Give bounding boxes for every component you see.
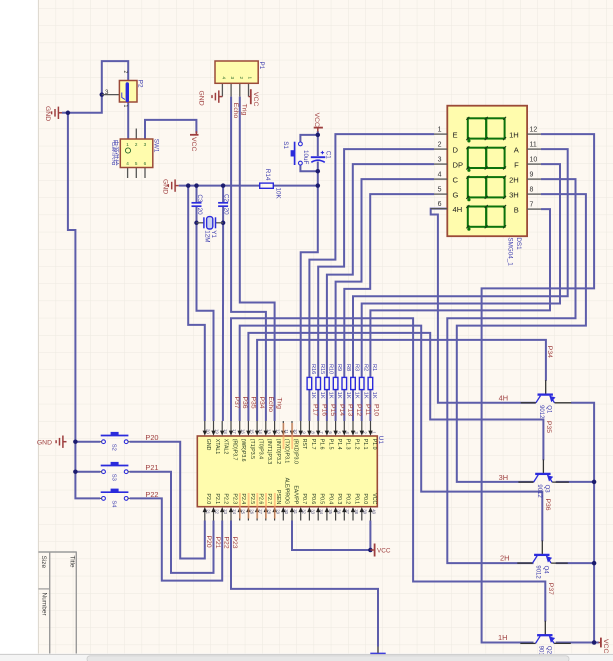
svg-text:21: 21 bbox=[206, 509, 211, 514]
pin 15 (T1)P3.5 (top) bbox=[247, 421, 249, 432]
svg-text:Number: Number bbox=[41, 593, 48, 617]
svg-text:Echo: Echo bbox=[232, 103, 239, 119]
pin 35 P0.4 (bottom) bbox=[326, 511, 328, 521]
svg-text:P20: P20 bbox=[205, 536, 212, 548]
wire: segment DP net bbox=[327, 164, 434, 377]
wire: Trig net P1 to MCU P3.2 bbox=[240, 97, 275, 421]
svg-text:3H: 3H bbox=[499, 473, 508, 482]
svg-text:1H: 1H bbox=[509, 130, 519, 139]
svg-text:P14: P14 bbox=[338, 404, 345, 416]
svg-text:10: 10 bbox=[293, 429, 298, 434]
svg-text:33: 33 bbox=[310, 509, 315, 514]
svg-text:P0.3: P0.3 bbox=[336, 494, 342, 505]
wire: P2 pin1 to SW1 pin1 bbox=[127, 102, 129, 139]
svg-text:P1.3: P1.3 bbox=[345, 439, 351, 450]
svg-text:P1.6: P1.6 bbox=[319, 439, 325, 450]
pin 3 DP (display left) bbox=[434, 163, 447, 165]
svg-text:15: 15 bbox=[249, 429, 254, 434]
svg-text:(RD)P3.7: (RD)P3.7 bbox=[231, 439, 237, 461]
pin 4 C (display left) bbox=[434, 178, 447, 180]
svg-text:1K: 1K bbox=[362, 392, 368, 399]
wire: stub to S2 bbox=[75, 441, 100, 443]
svg-text:P0.5: P0.5 bbox=[319, 494, 325, 505]
switch S1 (reset button) bbox=[294, 142, 296, 165]
svg-text:13: 13 bbox=[267, 429, 272, 434]
svg-text:VCC: VCC bbox=[371, 493, 377, 504]
svg-text:Echo: Echo bbox=[267, 397, 274, 413]
svg-text:12M: 12M bbox=[203, 230, 210, 242]
svg-text:P34: P34 bbox=[546, 346, 553, 358]
wire: segment F net bbox=[362, 164, 560, 377]
svg-text:4: 4 bbox=[438, 171, 442, 178]
wire: RST net to MCU pin 9 bbox=[301, 186, 318, 421]
resistor R3 1K bbox=[351, 377, 356, 389]
pin 36 P0.3 (bottom) bbox=[335, 511, 337, 521]
svg-text:Trig: Trig bbox=[276, 398, 283, 410]
svg-text:P20: P20 bbox=[145, 433, 158, 442]
VCC symbol at EA/VPP bbox=[370, 549, 374, 551]
wire: EA/VPP and VCC pin net bbox=[292, 521, 370, 551]
svg-text:E: E bbox=[453, 130, 458, 139]
svg-text:5: 5 bbox=[135, 161, 138, 166]
capacitor C2 20pF bbox=[218, 202, 228, 204]
wire: transistor emitter VCC rail bbox=[571, 403, 599, 643]
wire: P21 net S3 to MCU P2.1 bbox=[130, 472, 214, 573]
VCC symbol left (SW1 supply) bbox=[190, 134, 199, 136]
connector P1 bbox=[215, 61, 258, 83]
resistor R10 1K bbox=[325, 377, 330, 389]
pin 3 P1.2 (top) bbox=[352, 421, 354, 432]
pin 28 P2.7 (bottom) bbox=[265, 511, 267, 521]
svg-text:P0.2: P0.2 bbox=[345, 494, 351, 505]
svg-text:18: 18 bbox=[223, 429, 228, 434]
svg-text:40: 40 bbox=[371, 509, 376, 514]
switch S3 bbox=[101, 465, 129, 467]
svg-text:1: 1 bbox=[126, 142, 129, 147]
svg-text:R14: R14 bbox=[264, 169, 271, 181]
svg-text:PSEN: PSEN bbox=[275, 490, 281, 504]
svg-text:36: 36 bbox=[337, 509, 342, 514]
pin 13 (INT1)P3.3 (top) bbox=[265, 421, 267, 432]
svg-text:P1: P1 bbox=[258, 62, 265, 70]
node: junction P2 pin3 bbox=[100, 92, 105, 97]
svg-text:4: 4 bbox=[126, 161, 129, 166]
svg-text:1K: 1K bbox=[310, 392, 316, 399]
pin 40 VCC (bottom) bbox=[370, 511, 372, 521]
svg-text:DS1: DS1 bbox=[515, 237, 522, 250]
svg-text:2: 2 bbox=[122, 71, 128, 74]
svg-text:C: C bbox=[453, 175, 459, 184]
svg-text:XTAL1: XTAL1 bbox=[214, 439, 220, 455]
svg-text:32: 32 bbox=[302, 509, 307, 514]
svg-text:3: 3 bbox=[105, 89, 109, 96]
node: crystal junctions bbox=[194, 221, 199, 226]
svg-text:P17: P17 bbox=[312, 404, 319, 416]
wire: segment B net bbox=[370, 209, 550, 377]
svg-text:P36: P36 bbox=[241, 397, 248, 409]
node: junction button rail S3 bbox=[73, 469, 78, 474]
IC U1 AT89C51 microcontroller bbox=[197, 436, 377, 507]
svg-text:(INT1)P3.3: (INT1)P3.3 bbox=[266, 439, 272, 464]
svg-text:20: 20 bbox=[223, 208, 230, 216]
svg-text:2: 2 bbox=[239, 77, 244, 80]
svg-text:P2.6: P2.6 bbox=[258, 494, 264, 505]
svg-text:GND: GND bbox=[162, 179, 169, 194]
svg-text:P35: P35 bbox=[250, 397, 257, 409]
svg-text:5: 5 bbox=[438, 186, 442, 193]
resistor R14 10K bbox=[260, 183, 274, 188]
svg-text:C3: C3 bbox=[196, 194, 203, 203]
svg-text:RST: RST bbox=[301, 439, 307, 450]
svg-text:2: 2 bbox=[135, 142, 138, 147]
pin 7 B (display right) bbox=[527, 208, 541, 210]
svg-text:P12: P12 bbox=[355, 404, 362, 416]
svg-text:P34: P34 bbox=[258, 397, 265, 409]
pin 9 RST (top) bbox=[300, 421, 302, 432]
svg-text:1K: 1K bbox=[371, 392, 377, 399]
pin 10 (RXD)P3.0 (top) bbox=[291, 421, 293, 432]
svg-text:R15: R15 bbox=[319, 364, 325, 374]
svg-text:26: 26 bbox=[249, 509, 254, 514]
pin 2 D (display left) bbox=[434, 148, 447, 150]
display DS1 SMG04_1 body bbox=[447, 106, 527, 237]
svg-text:P1.1: P1.1 bbox=[362, 439, 368, 450]
ground symbol at buttons bbox=[56, 436, 66, 448]
svg-text:GND: GND bbox=[44, 106, 51, 121]
svg-text:8: 8 bbox=[530, 186, 534, 193]
svg-text:28: 28 bbox=[267, 509, 272, 514]
svg-text:R16: R16 bbox=[310, 364, 316, 374]
svg-text:37: 37 bbox=[345, 509, 350, 514]
svg-text:22: 22 bbox=[214, 509, 219, 514]
svg-text:P1.4: P1.4 bbox=[336, 439, 342, 450]
svg-text:3: 3 bbox=[144, 142, 147, 147]
svg-text:9012: 9012 bbox=[538, 405, 544, 419]
wire: P37 net MCU to Q2 base bbox=[231, 318, 545, 621]
wire: 3H common net bbox=[457, 194, 586, 482]
pin 1 P1.0 (top) bbox=[370, 421, 372, 432]
svg-text:Q4: Q4 bbox=[542, 566, 548, 575]
svg-text:38: 38 bbox=[354, 509, 359, 514]
svg-text:P37: P37 bbox=[547, 583, 554, 595]
pin 24 P2.3 (bottom) bbox=[230, 511, 232, 521]
svg-text:(WR)P3.6: (WR)P3.6 bbox=[240, 439, 246, 462]
wire: left GND rail down to buttons bbox=[68, 113, 100, 499]
pin 23 P2.2 (bottom) bbox=[221, 511, 223, 521]
pin 32 P0.7 (bottom) bbox=[300, 511, 302, 521]
node: emitter rail junctions bbox=[592, 480, 597, 485]
switch S2 bbox=[101, 435, 129, 437]
pin 18 XTAL2 (top) bbox=[221, 421, 223, 432]
ground symbol under P1 pin 4 bbox=[212, 90, 222, 102]
transistor Q3 9012 bbox=[535, 473, 550, 475]
svg-text:F: F bbox=[514, 160, 519, 169]
crystal Y1 12M bbox=[197, 222, 204, 224]
svg-text:P35: P35 bbox=[545, 421, 552, 433]
capacitor C3 20pF bbox=[192, 202, 202, 204]
svg-text:B: B bbox=[514, 205, 519, 214]
svg-text:P2.0: P2.0 bbox=[205, 494, 211, 505]
svg-text:P36: P36 bbox=[544, 499, 551, 511]
svg-text:39: 39 bbox=[363, 509, 368, 514]
svg-text:R9: R9 bbox=[336, 364, 342, 371]
node: S1/C1 top and bottom junctions bbox=[316, 133, 321, 138]
pin 1 E (display left) bbox=[434, 133, 447, 135]
pin 22 P2.1 (bottom) bbox=[213, 511, 215, 521]
resistor R16 1K bbox=[307, 377, 312, 389]
svg-text:Q3: Q3 bbox=[543, 485, 549, 494]
pin 6 4H (display left) bbox=[431, 208, 448, 210]
svg-text:R1: R1 bbox=[371, 364, 377, 371]
svg-text:4: 4 bbox=[221, 77, 226, 80]
wire: S1 bottom branch bbox=[300, 165, 317, 171]
svg-text:P10: P10 bbox=[373, 404, 380, 416]
pin 9 2H (display right) bbox=[527, 178, 541, 180]
pin 11 A (display right) bbox=[527, 148, 541, 150]
svg-text:C1: C1 bbox=[325, 151, 332, 160]
svg-text:1K: 1K bbox=[336, 392, 342, 399]
svg-text:P13: P13 bbox=[347, 404, 354, 416]
svg-text:35: 35 bbox=[328, 509, 333, 514]
wire: P36 net MCU to Q4 base bbox=[240, 326, 543, 542]
pin 6 P1.5 (top) bbox=[326, 421, 328, 432]
display digit glyphs bbox=[468, 118, 505, 138]
pin 8 P1.7 (top) bbox=[308, 421, 310, 432]
connector P2 bbox=[119, 81, 137, 103]
svg-text:1: 1 bbox=[248, 77, 253, 80]
svg-text:P2.7: P2.7 bbox=[266, 494, 272, 505]
svg-text:P0.7: P0.7 bbox=[301, 494, 307, 505]
pin 5 G (display left) bbox=[434, 193, 447, 195]
svg-text:P0.0: P0.0 bbox=[362, 494, 368, 505]
svg-text:3: 3 bbox=[438, 156, 442, 163]
svg-text:VCC: VCC bbox=[252, 92, 259, 106]
svg-text:Title: Title bbox=[69, 556, 76, 568]
wire: segment G net bbox=[344, 194, 434, 377]
svg-text:XTAL2: XTAL2 bbox=[223, 439, 229, 455]
node: junction button rail S2 bbox=[73, 439, 78, 444]
svg-text:4H: 4H bbox=[453, 205, 463, 214]
svg-text:P1.2: P1.2 bbox=[353, 439, 359, 450]
svg-text:24: 24 bbox=[232, 509, 237, 514]
VCC symbol under P1 pin 1 bbox=[249, 96, 251, 98]
scrollbar band bbox=[0, 655, 613, 661]
svg-text:(T1)P3.5: (T1)P3.5 bbox=[249, 439, 255, 459]
pin 8 3H (display right) bbox=[527, 193, 541, 195]
transistor Q5 (bottom, cut off) bbox=[370, 653, 385, 655]
svg-text:9: 9 bbox=[530, 171, 534, 178]
orange highlight marks on pins 11,10 bbox=[283, 423, 285, 449]
svg-text:34: 34 bbox=[319, 509, 324, 514]
wire: SW1 bottom stubs bbox=[127, 168, 129, 179]
wire: C1 column to RST rail bbox=[317, 135, 319, 156]
svg-text:(TXD)P3.1: (TXD)P3.1 bbox=[284, 439, 290, 464]
svg-text:VCC: VCC bbox=[377, 547, 391, 554]
svg-text:C2: C2 bbox=[223, 194, 230, 203]
pin 37 P0.2 (bottom) bbox=[343, 511, 345, 521]
svg-text:VCC: VCC bbox=[313, 113, 320, 127]
wire: resistor bank lower wires to P1.x pins bbox=[308, 390, 310, 421]
svg-text:9012: 9012 bbox=[535, 565, 541, 579]
pin 2 P1.1 (top) bbox=[361, 421, 363, 432]
node: junction VCC/EA bbox=[368, 548, 373, 553]
svg-text:P15: P15 bbox=[329, 404, 336, 416]
title block bbox=[38, 552, 76, 654]
svg-text:R3: R3 bbox=[354, 364, 360, 371]
svg-text:23: 23 bbox=[223, 509, 228, 514]
svg-text:6: 6 bbox=[144, 161, 147, 166]
svg-text:P2: P2 bbox=[137, 80, 144, 88]
sheet border left edge bbox=[37, 0, 39, 654]
svg-text:P11: P11 bbox=[364, 404, 371, 416]
pin 5 P1.4 (top) bbox=[335, 421, 337, 432]
svg-text:14: 14 bbox=[258, 429, 263, 434]
wire: P34 net MCU to Q1 base bbox=[257, 340, 546, 421]
svg-text:G: G bbox=[453, 190, 459, 199]
svg-text:SMG04_1: SMG04_1 bbox=[507, 237, 514, 266]
switch SW1 (power select) bbox=[120, 139, 153, 168]
pin 21 P2.0 (bottom) bbox=[204, 511, 206, 521]
svg-text:(INT0)P3.2: (INT0)P3.2 bbox=[275, 439, 281, 464]
svg-text:17: 17 bbox=[232, 429, 237, 434]
wire: segment E net bbox=[309, 134, 434, 377]
pin 26 P2.5 (bottom) bbox=[247, 511, 249, 521]
wire: P35 net MCU to Q3 base bbox=[248, 333, 543, 460]
svg-text:P0.4: P0.4 bbox=[327, 494, 333, 505]
svg-text:10uF: 10uF bbox=[302, 150, 309, 165]
svg-text:P1.5: P1.5 bbox=[327, 439, 333, 450]
resistor R9 1K bbox=[333, 377, 338, 389]
svg-text:VCC: VCC bbox=[190, 137, 197, 151]
svg-text:EA/VPP: EA/VPP bbox=[292, 485, 298, 504]
wire: 1H common net bbox=[482, 134, 594, 642]
svg-text:6: 6 bbox=[438, 201, 442, 208]
svg-text:Q2: Q2 bbox=[545, 646, 551, 655]
pin 27 P2.6 (bottom) bbox=[256, 511, 258, 521]
svg-text:2H: 2H bbox=[509, 175, 519, 184]
pin 14 (T0)P3.4 (top) bbox=[256, 421, 258, 432]
svg-text:25: 25 bbox=[241, 509, 246, 514]
svg-text:P37: P37 bbox=[233, 397, 240, 409]
svg-text:ALE/PROG: ALE/PROG bbox=[284, 478, 290, 505]
resistor R2 1K bbox=[359, 377, 364, 389]
svg-text:P21: P21 bbox=[145, 463, 158, 472]
svg-text:P0.1: P0.1 bbox=[353, 494, 359, 505]
wire: C3 / XTAL1 column bbox=[196, 186, 198, 203]
svg-text:电源供给: 电源供给 bbox=[111, 140, 120, 167]
svg-text:S4: S4 bbox=[111, 500, 117, 508]
svg-text:12: 12 bbox=[530, 126, 538, 133]
svg-text:1K: 1K bbox=[328, 392, 334, 399]
svg-text:S3: S3 bbox=[111, 474, 117, 481]
wire: segment D net bbox=[318, 149, 434, 377]
pin 7 P1.6 (top) bbox=[317, 421, 319, 432]
resistor R8 1K bbox=[342, 377, 347, 389]
wire: segment C net bbox=[336, 179, 434, 377]
pin 11 (TXD)P3.1 (top) bbox=[282, 421, 284, 432]
svg-text:R10: R10 bbox=[328, 364, 334, 374]
svg-text:P16: P16 bbox=[320, 404, 327, 416]
pin 17 (RD)P3.7 (top) bbox=[230, 421, 232, 432]
svg-text:R2: R2 bbox=[362, 364, 368, 371]
resistor R1 1K bbox=[368, 377, 373, 389]
svg-text:20: 20 bbox=[206, 429, 211, 434]
svg-text:4H: 4H bbox=[499, 393, 508, 402]
svg-text:R8: R8 bbox=[345, 364, 351, 371]
svg-text:1: 1 bbox=[122, 105, 128, 108]
svg-text:27: 27 bbox=[258, 509, 263, 514]
svg-text:P21: P21 bbox=[214, 537, 221, 549]
wire: segment A net bbox=[353, 149, 568, 377]
svg-text:VCC: VCC bbox=[602, 639, 609, 653]
svg-text:P2.4: P2.4 bbox=[240, 494, 246, 505]
svg-text:(T0)P3.4: (T0)P3.4 bbox=[258, 439, 264, 459]
svg-text:2: 2 bbox=[438, 141, 442, 148]
wire: P22 net S4 to MCU P2.2 bbox=[130, 498, 222, 580]
svg-text:11: 11 bbox=[284, 429, 289, 434]
svg-text:GND: GND bbox=[205, 439, 211, 451]
svg-text:29: 29 bbox=[276, 509, 281, 514]
svg-text:19: 19 bbox=[214, 429, 219, 434]
svg-text:GND: GND bbox=[37, 440, 52, 447]
orange highlight marks on pins 25-29 bbox=[239, 493, 241, 519]
wire: VCC to S1/C1 top node bbox=[317, 131, 319, 135]
pin 12 1H (display right) bbox=[527, 133, 541, 135]
ground symbol top-left bbox=[52, 107, 62, 119]
svg-text:1K: 1K bbox=[354, 392, 360, 399]
svg-text:U1: U1 bbox=[377, 436, 384, 445]
wire: C2 / XTAL2 column bbox=[222, 186, 224, 203]
wire: P20 net S2 to MCU P2.0 bbox=[130, 442, 205, 559]
svg-text:P2.1: P2.1 bbox=[214, 494, 220, 505]
svg-text:P23: P23 bbox=[231, 537, 238, 549]
svg-text:7: 7 bbox=[530, 201, 534, 208]
svg-text:D: D bbox=[453, 145, 459, 154]
pin 10 F (display right) bbox=[527, 163, 541, 165]
pin 39 P0.0 (bottom) bbox=[361, 511, 363, 521]
pin 34 P0.5 (bottom) bbox=[317, 511, 319, 521]
svg-text:S1: S1 bbox=[282, 141, 289, 149]
svg-text:P2.2: P2.2 bbox=[223, 494, 229, 505]
pin 25 P2.4 (bottom) bbox=[239, 511, 241, 521]
svg-text:S2: S2 bbox=[111, 444, 117, 451]
wire: 4H common net bbox=[431, 209, 536, 403]
svg-text:P1.0: P1.0 bbox=[371, 439, 377, 450]
resistor R15 1K bbox=[316, 377, 321, 389]
node: junction GND top wire bbox=[66, 111, 71, 116]
transistor Q4 9012 bbox=[534, 554, 549, 556]
pin 20 GND (top) bbox=[204, 421, 206, 432]
wire: SW1 pin2 stub bbox=[135, 129, 137, 140]
svg-text:1K: 1K bbox=[319, 392, 325, 399]
svg-text:P22: P22 bbox=[145, 490, 158, 499]
pin 31 EA/VPP (bottom) bbox=[291, 511, 293, 521]
svg-text:10K: 10K bbox=[274, 188, 281, 200]
node: junctions on GND/RST rail bbox=[186, 183, 191, 188]
svg-text:P2.3: P2.3 bbox=[231, 494, 237, 505]
transistor Q2 9012 bbox=[537, 634, 552, 636]
svg-text:SW1: SW1 bbox=[152, 139, 159, 153]
pin 33 P0.6 (bottom) bbox=[308, 511, 310, 521]
svg-text:P22: P22 bbox=[223, 537, 230, 549]
svg-text:3: 3 bbox=[230, 77, 235, 80]
svg-text:12: 12 bbox=[276, 429, 281, 434]
svg-text:P2.5: P2.5 bbox=[249, 494, 255, 505]
svg-text:1K: 1K bbox=[345, 392, 351, 399]
svg-text:3H: 3H bbox=[509, 190, 519, 199]
pin 16 (WR)P3.6 (top) bbox=[239, 421, 241, 432]
svg-text:Trig: Trig bbox=[241, 104, 248, 116]
